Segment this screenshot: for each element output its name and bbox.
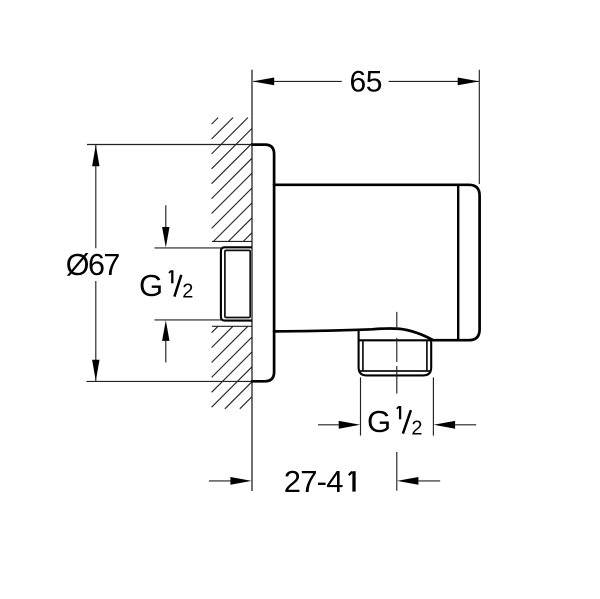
inlet leader line top <box>155 247 222 249</box>
outlet dim extension line right <box>432 377 434 435</box>
flange outline <box>252 145 274 382</box>
dim 67 extension line top <box>87 144 252 146</box>
outlet centerline dash 2 <box>396 338 398 362</box>
dim 67 extension line bottom <box>86 380 252 382</box>
dim 65 arrowhead left <box>253 78 275 86</box>
outlet centerline extension below <box>396 452 398 491</box>
outlet dim arrow left head <box>339 421 361 429</box>
inlet arrow up shaft <box>165 341 167 363</box>
wall hatch upper section <box>212 118 252 242</box>
inlet G 1/2 label <box>139 268 193 303</box>
dim 67 arrowhead top <box>92 145 99 166</box>
outlet dim arrow right shaft <box>455 424 476 426</box>
outlet dim arrow left shaft <box>318 424 339 426</box>
svg-text:2: 2 <box>182 281 193 303</box>
outlet thread inner left line <box>362 340 364 371</box>
outlet nipple outer outline <box>359 331 432 375</box>
outlet G 1/2 label <box>367 404 423 440</box>
body outline <box>274 185 480 340</box>
svg-text:G: G <box>367 404 391 439</box>
dim 65 extension line right <box>478 70 480 184</box>
svg-text:Ø67: Ø67 <box>66 248 120 282</box>
wall hole upper edge line <box>212 240 252 242</box>
dim 65 line left segment <box>253 80 341 82</box>
wall surface line / extension line <box>251 70 253 491</box>
wall hatch lower section <box>212 326 252 409</box>
dim 27-41 arrow right shaft <box>418 480 440 482</box>
outlet centerline dash 3 <box>396 366 398 394</box>
svg-text:27-4: 27-4 <box>284 464 343 499</box>
wall hole lower edge line <box>212 325 252 327</box>
dim 65 line right segment <box>389 80 479 82</box>
dim 67 arrowhead bottom <box>92 360 99 381</box>
inlet leader line bottom <box>155 319 222 321</box>
dim 27-41 text <box>284 464 354 499</box>
outlet dim arrow right head <box>434 421 456 429</box>
svg-text:G: G <box>139 268 163 303</box>
inlet thread inner outline <box>225 250 250 317</box>
dim 27-41 arrow left shaft <box>209 480 231 482</box>
svg-text:65: 65 <box>350 66 383 99</box>
outlet thread relief line <box>359 370 430 372</box>
dim 67 line lower segment <box>95 281 97 381</box>
outlet centerline dash 1 <box>396 312 398 330</box>
dim 27-41 arrow right head <box>397 477 418 485</box>
dim 27-41 arrow left head <box>230 477 251 485</box>
dim 65 arrowhead right <box>458 78 480 86</box>
outlet dim extension line left <box>360 377 362 435</box>
svg-text:2: 2 <box>411 418 422 440</box>
outlet top line <box>359 339 432 341</box>
inlet arrow down shaft <box>165 205 167 227</box>
inlet arrow down head <box>162 227 169 248</box>
inlet nipple outer outline <box>221 247 252 320</box>
dim 67 line upper segment <box>95 145 97 248</box>
outlet thread inner right line <box>426 340 428 371</box>
body end cap line <box>457 185 459 340</box>
inlet arrow up head <box>162 320 169 341</box>
